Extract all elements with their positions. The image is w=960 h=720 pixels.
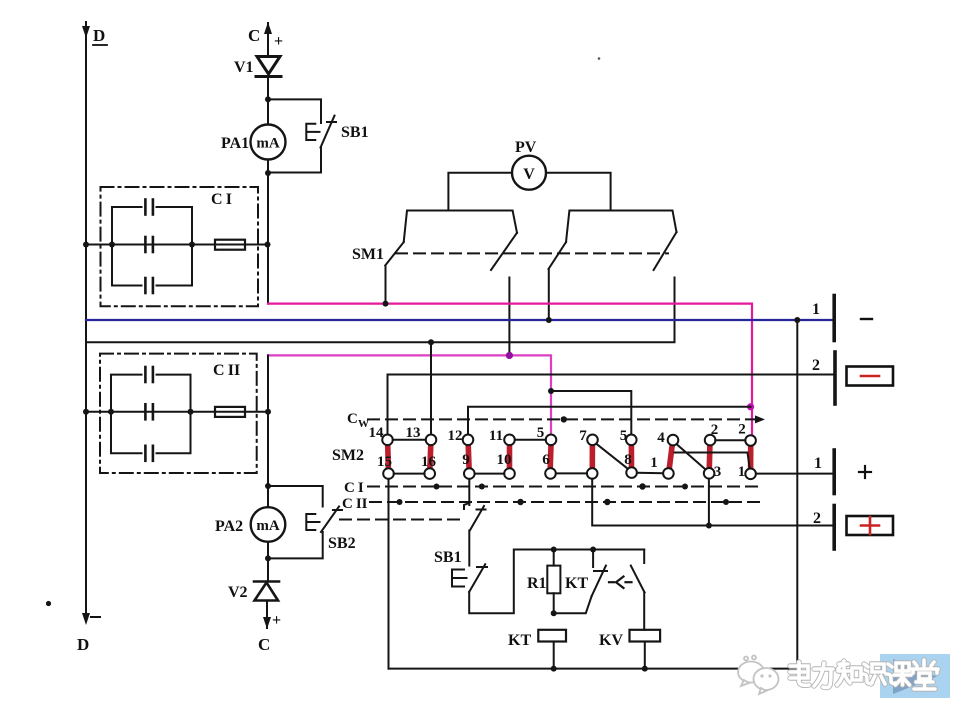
svg-text:2: 2 bbox=[813, 510, 821, 527]
svg-text:2: 2 bbox=[738, 422, 746, 438]
svg-text:1: 1 bbox=[738, 464, 746, 480]
node magenta dot at 406.8 bbox=[747, 403, 754, 410]
svg-text:13: 13 bbox=[406, 425, 421, 441]
svg-text:C: C bbox=[347, 411, 358, 427]
svg-text:5: 5 bbox=[620, 428, 628, 444]
pushbutton SB2 bbox=[306, 507, 342, 533]
wire riser circle12 bbox=[468, 407, 751, 435]
node dot on rail 342 bbox=[428, 339, 434, 345]
svg-text:10: 10 bbox=[497, 452, 512, 468]
wire SB1 branch top bbox=[268, 99, 321, 123]
node C bottom arrow bbox=[263, 617, 271, 629]
svg-text:mA: mA bbox=[256, 136, 279, 152]
svg-text:PA2: PA2 bbox=[215, 518, 243, 535]
ammeter PA1 bbox=[251, 125, 286, 160]
svg-text:C I: C I bbox=[344, 480, 364, 496]
svg-text:3: 3 bbox=[714, 464, 722, 480]
svg-text:D: D bbox=[93, 26, 105, 45]
control link C II dashed bbox=[370, 501, 759, 503]
switch SM1 link dashed bbox=[396, 252, 668, 254]
wire magenta to 5b bbox=[551, 391, 631, 435]
svg-text:V2: V2 bbox=[228, 584, 248, 601]
svg-text:KT: KT bbox=[565, 575, 588, 592]
pushbutton SB1 (top) bbox=[306, 116, 336, 148]
svg-text:C: C bbox=[248, 26, 260, 45]
wire PA2 to V2 bbox=[267, 542, 269, 582]
wire c15 drop to bottom rail bbox=[388, 479, 390, 669]
capacitor C I middle bbox=[142, 237, 157, 252]
node dots on bottom rail bbox=[551, 666, 648, 672]
node D bottom arrow bbox=[82, 613, 90, 625]
wire bottom rail bbox=[389, 668, 798, 670]
switch SM2 arm c4-c3 bbox=[677, 444, 706, 469]
wire KT coil bottom bbox=[553, 642, 555, 669]
control link C I dashed bbox=[368, 486, 759, 488]
node dots on C I line bbox=[83, 242, 271, 248]
wire terminal 2minus rail bbox=[388, 375, 833, 435]
svg-text:15: 15 bbox=[377, 454, 392, 470]
node dots on C II link bbox=[397, 499, 730, 505]
svg-text:mA: mA bbox=[256, 518, 279, 534]
watermark highlight box bbox=[880, 654, 950, 698]
relay coil KV bbox=[630, 630, 661, 642]
wire C I inner loop bbox=[112, 207, 192, 286]
svg-text:SB1: SB1 bbox=[434, 549, 462, 566]
node D top label bbox=[93, 26, 107, 45]
capacitor box C I dash-dot border bbox=[101, 187, 259, 306]
wire PV left bbox=[448, 173, 512, 211]
svg-text:C: C bbox=[258, 635, 270, 654]
node junction above PA1 bbox=[265, 96, 271, 102]
voltmeter PV bbox=[512, 156, 546, 190]
svg-text:SM2: SM2 bbox=[332, 447, 364, 464]
node C top arrow bbox=[264, 22, 272, 34]
wire magenta bus 1 bbox=[268, 304, 752, 435]
wire PV right bbox=[546, 173, 611, 211]
terminal 2 plus bar bbox=[832, 506, 836, 550]
switch SM1 arm 4 bbox=[654, 232, 677, 270]
wire SM1 contact 4 bbox=[86, 278, 675, 343]
wire link c11-c5a bbox=[515, 439, 546, 441]
wire C II vertical to PA2 bbox=[267, 355, 269, 507]
switch SM2 arm c7-c8 bbox=[596, 444, 628, 469]
switch SM2 bottom numbers bbox=[377, 452, 745, 480]
capacitor C II bottom bbox=[145, 446, 153, 461]
svg-text:12: 12 bbox=[448, 428, 463, 444]
resistor R1 bbox=[547, 550, 560, 614]
svg-text:9: 9 bbox=[462, 452, 470, 468]
node D bottom labels bbox=[77, 617, 100, 654]
wire SM1 contact 2 bbox=[508, 278, 510, 356]
polarity box plus bbox=[847, 516, 894, 535]
wire SB1 to relay rail bbox=[469, 550, 644, 614]
wire link c9-c10 bbox=[475, 473, 505, 475]
wire SB2 branch bottom bbox=[268, 532, 323, 558]
switch SM1 bracket 1 bbox=[404, 211, 517, 243]
wire SB1 branch bottom bbox=[268, 148, 321, 173]
svg-text:SM1: SM1 bbox=[352, 246, 384, 263]
wire c6b drop to plus2 rail bbox=[592, 479, 832, 526]
wire jumper to c1R bbox=[675, 453, 750, 468]
capacitor box C II dash-dot border bbox=[100, 354, 257, 473]
wire link c2a-c2b bbox=[715, 439, 745, 441]
svg-text:2: 2 bbox=[711, 422, 719, 438]
switch SM1 bracket 2 bbox=[566, 211, 677, 243]
node junction below PA1 bbox=[265, 170, 271, 176]
switch SM1 arm 3 bbox=[549, 242, 567, 269]
capacitor C I top bbox=[145, 200, 153, 215]
svg-text:V1: V1 bbox=[234, 59, 254, 76]
time delay symbol bbox=[609, 577, 632, 589]
svg-text:6: 6 bbox=[542, 452, 550, 468]
svg-text:11: 11 bbox=[489, 428, 503, 444]
node junction above PA2 bbox=[265, 483, 271, 489]
wire blue bus bbox=[86, 319, 832, 321]
control link SB2 dashed bbox=[340, 519, 462, 521]
wire c9 drop bbox=[468, 479, 470, 505]
svg-text:KT: KT bbox=[508, 632, 531, 649]
svg-text:SB2: SB2 bbox=[328, 535, 356, 552]
pushbutton SB1 (bottom) bbox=[452, 564, 487, 592]
wire link c14-c13 bbox=[393, 439, 426, 441]
wire magenta bus 2 bbox=[268, 355, 551, 434]
node junction R1/KT bottom bbox=[551, 610, 557, 616]
svg-text:7: 7 bbox=[579, 428, 587, 444]
contact KT time-delay bbox=[554, 550, 607, 614]
terminal 1 minus bar bbox=[832, 296, 836, 341]
svg-text:C I: C I bbox=[211, 191, 232, 208]
node C top line bbox=[267, 23, 269, 56]
node dot c3 on plus2 rail bbox=[706, 523, 712, 529]
diode V1 bbox=[256, 57, 281, 77]
fuse in C I bbox=[215, 240, 245, 250]
capacitor C I bottom bbox=[145, 278, 153, 293]
wire riser circle13 bbox=[430, 342, 432, 434]
svg-text:R1: R1 bbox=[527, 575, 547, 592]
diode V2 bbox=[254, 582, 279, 601]
svg-text:PV: PV bbox=[515, 139, 537, 156]
terminal 1 plus bar bbox=[832, 450, 836, 494]
node dot on Cw link bbox=[561, 416, 567, 422]
node dots on relay top rail bbox=[551, 547, 596, 553]
svg-text:SB1: SB1 bbox=[341, 124, 369, 141]
wire V1 to PA1 bbox=[267, 76, 269, 125]
wire link c8-c1L bbox=[637, 472, 663, 474]
node dot SM1-3 on blue bus bbox=[546, 317, 552, 323]
svg-text:+: + bbox=[272, 612, 281, 629]
node C bottom labels bbox=[258, 612, 281, 654]
wire link c15-c16 bbox=[394, 473, 425, 475]
capacitor C II top bbox=[145, 367, 153, 382]
wire C I main line bbox=[86, 244, 268, 246]
svg-text:5: 5 bbox=[537, 425, 545, 441]
node junction below PA2 bbox=[265, 555, 271, 561]
wire SM1 contact 3 bbox=[548, 269, 550, 320]
ammeter PA2 bbox=[251, 507, 286, 542]
speck artifact top bbox=[598, 57, 601, 60]
node dot black on magenta vertical bbox=[548, 388, 554, 394]
svg-text:C II: C II bbox=[213, 362, 240, 379]
node C top labels bbox=[248, 26, 283, 50]
node dot on magenta bus 1 bbox=[383, 301, 389, 307]
speck artifact bbox=[46, 601, 51, 606]
wire c3 drop bbox=[708, 479, 710, 526]
svg-text:1: 1 bbox=[812, 301, 820, 318]
contact KV side bbox=[631, 550, 645, 630]
svg-text:1: 1 bbox=[650, 455, 658, 471]
wire V2 down bbox=[266, 601, 268, 629]
svg-text:8: 8 bbox=[624, 452, 632, 468]
watermark arrow bbox=[893, 659, 937, 694]
switch SB2 auxiliary contact bbox=[464, 503, 486, 531]
wire SB2 branch top bbox=[268, 486, 323, 507]
fuse in C II bbox=[215, 407, 245, 417]
wire between contacts bbox=[468, 531, 470, 566]
wire link c6a-c6b bbox=[556, 472, 587, 474]
node arrow end of Cw link bbox=[755, 415, 765, 423]
wire C II main line bbox=[86, 411, 268, 413]
svg-text:PA1: PA1 bbox=[221, 135, 249, 152]
switch SM2 top row contact circles bbox=[382, 435, 756, 446]
wire right vertical to blue bus bbox=[796, 320, 798, 669]
node dot right vertical on blue bus bbox=[794, 317, 800, 323]
switch SM2 bottom row contact circles bbox=[383, 467, 756, 479]
switch SM1 arm 2 bbox=[491, 233, 517, 270]
svg-text:16: 16 bbox=[421, 454, 437, 470]
node dots on C II line bbox=[83, 409, 271, 415]
wire SM1 contact 1 bbox=[385, 266, 387, 304]
svg-text:1: 1 bbox=[814, 455, 822, 472]
node D bus line bbox=[85, 22, 87, 620]
svg-text:2: 2 bbox=[812, 357, 820, 374]
relay coil KT bbox=[538, 630, 566, 642]
polarity box minus bbox=[847, 367, 894, 386]
control link Cw dashed bbox=[368, 418, 756, 420]
wire C II inner loop bbox=[111, 375, 191, 454]
svg-text:W: W bbox=[358, 418, 369, 430]
svg-text:D: D bbox=[77, 635, 89, 654]
node dot SM1-2 on magenta bus 2 bbox=[506, 352, 513, 359]
watermark chat icon bbox=[738, 656, 779, 695]
switch SM1 arm 1 bbox=[385, 242, 404, 265]
wire PA1 down to C I line bbox=[267, 160, 269, 304]
node dots on C I link bbox=[434, 483, 689, 489]
wire c1R to plus1 terminal bbox=[756, 473, 833, 475]
wire KV coil bottom bbox=[644, 642, 646, 669]
capacitor C II middle bbox=[145, 404, 153, 419]
svg-text:+: + bbox=[274, 33, 283, 50]
svg-text:4: 4 bbox=[657, 430, 665, 446]
svg-text:C II: C II bbox=[342, 496, 368, 512]
svg-text:14: 14 bbox=[369, 425, 385, 441]
terminal 2 minus bar bbox=[833, 352, 837, 404]
switch SM2 top numbers bbox=[369, 422, 746, 447]
svg-text:V: V bbox=[523, 166, 535, 183]
svg-text:KV: KV bbox=[599, 632, 623, 649]
node D top arrow bbox=[82, 26, 90, 38]
switch SM2 red links bbox=[388, 445, 751, 470]
